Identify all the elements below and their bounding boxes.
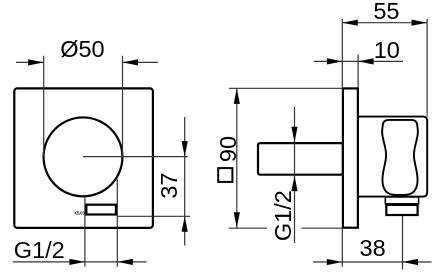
- dim square90: bottom arrow (down): [234, 212, 240, 228]
- dim Ø50: left arrow: [28, 59, 44, 65]
- dim 55: right arrow: [412, 20, 428, 26]
- dim 10: right extension line: [357, 54, 359, 88]
- front view: outlet right side line / G1/2 extension line: [116, 179, 118, 267]
- front view: centre line from circle centre: [83, 156, 188, 158]
- dim square90: bottom extension line segment a: [229, 227, 267, 229]
- dim Ø50: left extension line: [43, 56, 45, 157]
- dim 38: dimension line: [313, 261, 432, 263]
- dim 38: left arrow: [327, 259, 343, 265]
- svg-text:Ø50: Ø50: [60, 36, 104, 62]
- dim 37: top arrow (down): [182, 141, 188, 157]
- svg-text:37: 37: [156, 173, 182, 199]
- dim G1/2 side: bottom arrow (up): [291, 176, 297, 192]
- front view: square wall plate: [14, 88, 153, 228]
- svg-text:G1/2: G1/2: [270, 190, 296, 241]
- svg-text:90: 90: [215, 136, 241, 162]
- svg-text:KEUCO: KEUCO: [75, 211, 85, 216]
- dim 10: dimension line: [314, 60, 403, 62]
- dim Ø50: dimension line right segment: [123, 61, 158, 63]
- dim G1/2 side: top arrow (down): [291, 127, 297, 143]
- dim 55: right extension line: [426, 19, 428, 117]
- dim G1/2 front: right arrow: [117, 259, 133, 265]
- dim G1/2 front: dimension line: [13, 261, 147, 263]
- svg-text:G1/2: G1/2: [14, 237, 65, 263]
- svg-text:10: 10: [374, 37, 400, 63]
- front view: round escutcheon Ø50: [44, 117, 123, 196]
- dim Ø50: dimension line left segment: [16, 61, 44, 63]
- dim square90: top extension line: [229, 87, 343, 89]
- dim 37: label: [156, 173, 182, 199]
- side view: holder frame: [358, 117, 427, 197]
- dim G1/2 front: left arrow: [69, 259, 85, 265]
- front view: outlet spout box: [86, 205, 116, 215]
- side view: hose connector nut: [386, 205, 417, 215]
- dim 38: left extension line: [341, 228, 343, 267]
- side view: wall plate: [343, 88, 358, 227]
- side view: holder grip profile: [382, 120, 418, 195]
- dim square90: dimension line: [236, 88, 238, 227]
- dim 10: left arrow: [327, 58, 343, 64]
- dim 55: left extension line (wall plane): [341, 19, 343, 88]
- dim 37: bottom arrow (up): [182, 216, 188, 232]
- dim square90: label: [215, 136, 241, 162]
- front view: outlet left side line / G1/2 extension line: [84, 196, 86, 267]
- dim 38: right arrow: [403, 259, 419, 265]
- dim G1/2 side: label: [270, 190, 296, 241]
- KEUCO logo text: [75, 211, 85, 216]
- dim 55: dimension line: [342, 22, 427, 24]
- dim 37: dimension line: [184, 117, 186, 246]
- svg-text:38: 38: [360, 235, 386, 261]
- dim Ø50: right extension line: [122, 56, 124, 157]
- side view: hose connector upper ring: [385, 197, 418, 204]
- dim square90: top arrow (up): [234, 88, 240, 104]
- dim G1/2 side: dimension line: [294, 107, 296, 243]
- dim square90: bottom extension line segment b: [302, 227, 345, 229]
- svg-text:55: 55: [373, 0, 399, 24]
- dim 55: left arrow: [342, 20, 358, 26]
- side view: hose centre extension line: [402, 216, 404, 270]
- side view: supply pipe G1/2: [258, 143, 343, 175]
- dim Ø50: right arrow: [123, 59, 139, 65]
- dim 37: lower extension line: [117, 215, 190, 217]
- dim 10: right arrow: [358, 58, 374, 64]
